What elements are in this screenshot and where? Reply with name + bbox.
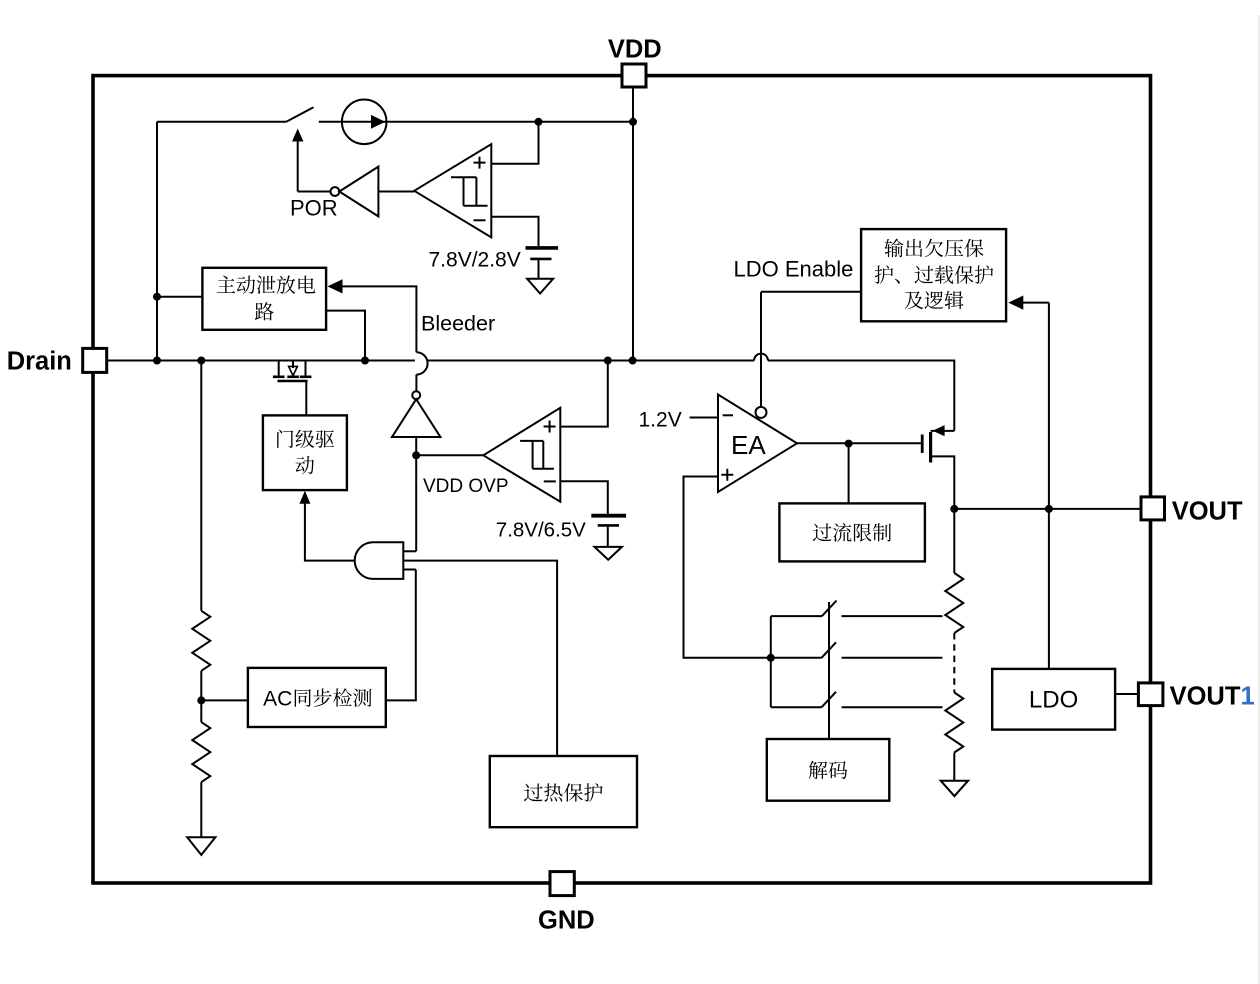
block thermal protection text 过热保护 <box>524 784 543 802</box>
wire 1.2V to EA - input <box>690 417 718 419</box>
wire trim bracket vertical <box>770 616 772 707</box>
block current limit text 过流限制 <box>813 523 832 541</box>
wire UV box left to enable line <box>761 291 861 293</box>
resistor R2 <box>192 722 210 782</box>
comparator U1 plus sign <box>474 157 486 169</box>
transistor Q1 gate bar <box>278 380 308 383</box>
capacitor C2 top plate <box>591 514 626 518</box>
transistor Q1 body contact tick <box>287 375 299 378</box>
wire EA output to Q2 gate <box>797 442 921 444</box>
wire divider dashed section <box>953 633 955 693</box>
buffer U4 bubble <box>412 391 420 399</box>
wire switch common to decoder <box>828 602 830 739</box>
pin VDD square <box>622 64 646 87</box>
wire Q2 source to VOUT node <box>931 456 955 509</box>
wire AND output to gate driver <box>305 503 355 561</box>
resistor R3 <box>945 573 963 633</box>
buffer U4 triangle <box>392 399 440 437</box>
block gate driver text line1 门级驱 <box>277 430 293 448</box>
wire C1 to ground <box>538 260 540 279</box>
op-amp EA plus sign <box>721 469 733 481</box>
block UV overload logic box <box>861 229 1006 321</box>
svg-text:Bleeder: Bleeder <box>421 312 495 336</box>
block decoder text 解码 <box>809 761 828 779</box>
block AC sync text 同步检测 <box>295 689 311 707</box>
wire EA + input from feedback <box>684 477 771 658</box>
resistor R1 <box>192 611 210 671</box>
junction dot AC sync tap <box>197 696 205 704</box>
block active bleeder text line1 主动泄放电 <box>217 276 235 293</box>
comparator U1 triangle <box>414 144 491 237</box>
ground symbol G3 <box>187 837 215 855</box>
current source I1 circle <box>342 100 387 145</box>
wire switch to current source to VDD line <box>319 121 633 123</box>
wire VOUT sense to UV box <box>1022 302 1049 304</box>
svg-text:EA: EA <box>731 430 766 460</box>
capacitor C1 top plate <box>526 246 559 250</box>
inverter U3 triangle POR <box>339 167 378 217</box>
comparator U2 hysteresis symbol <box>520 441 554 469</box>
wire trim row3 left <box>771 706 822 708</box>
wire trim row2 left <box>771 657 822 659</box>
block LDO box <box>992 669 1115 730</box>
wire POR control arrow vertical <box>297 139 299 192</box>
transistor Q2 channel bar <box>929 432 932 463</box>
wire VDD rail horizontal (switch left segment) <box>157 121 286 123</box>
wire U1 - input to reference cap <box>491 217 538 246</box>
wire Q1 gate to driver box <box>305 381 307 415</box>
block AC sync detect box <box>248 668 386 727</box>
svg-text:AC: AC <box>263 687 292 710</box>
block gate driver box <box>263 415 347 490</box>
ground symbol G2 <box>595 547 622 560</box>
svg-text:7.8V/6.5V: 7.8V/6.5V <box>496 519 586 542</box>
junction dot feedback node <box>767 654 775 662</box>
op-amp EA minus sign <box>723 414 733 416</box>
pin GND square <box>550 872 574 896</box>
transistor Q2 arrowhead <box>933 425 945 436</box>
wire buffer to OVP node <box>415 437 417 455</box>
svg-text:Drain: Drain <box>7 348 72 376</box>
wire R2 to ground <box>200 782 202 837</box>
wire EA output to current limit box <box>848 444 850 504</box>
junction dot EA output <box>845 440 853 448</box>
transistor Q1 drain contact tick <box>273 375 285 378</box>
chip boundary outline <box>93 76 1151 883</box>
wire hop over bus (bleeder) <box>416 352 427 374</box>
svg-text:LDO Enable: LDO Enable <box>734 257 854 282</box>
wire bus hop over enable line <box>754 354 768 361</box>
wire bleeder control from buffer <box>342 286 417 352</box>
block UV text line2 护、过载保护 <box>875 265 893 284</box>
wire VDD pin to bus vertical <box>632 87 634 361</box>
block active bleeder box <box>202 268 326 330</box>
wire trim row2 right <box>842 657 943 659</box>
wire bleeder box left to Drain rail <box>157 296 202 298</box>
svg-text:VDD OVP: VDD OVP <box>423 476 509 497</box>
op-amp EA triangle <box>718 395 797 493</box>
arrowhead into gate driver <box>299 491 310 504</box>
resistor R4 <box>945 693 963 753</box>
op-amp EA enable bubble <box>756 407 767 418</box>
capacitor C1 bottom plate <box>530 258 551 261</box>
transistor Q1 body arrowhead <box>289 366 298 375</box>
ground symbol G4 <box>941 781 968 796</box>
junction dot VOUT node <box>950 505 958 513</box>
wire Drain bus segment 2 <box>428 360 755 362</box>
block active bleeder text line2 路 <box>255 302 274 320</box>
svg-text:GND: GND <box>538 907 595 935</box>
comparator U1 minus sign <box>474 219 486 221</box>
block gate driver text line2 动 <box>296 456 315 474</box>
junction dot bus left rail <box>153 357 161 365</box>
switch S3 blade <box>822 642 837 658</box>
block thermal protection box <box>490 756 637 827</box>
wire AND bottom input to AC sync box <box>386 570 416 701</box>
comparator U1 hysteresis symbol <box>451 177 488 206</box>
capacitor C2 bottom plate <box>598 524 619 527</box>
wire U1 + input from VDD rail <box>491 122 538 164</box>
ground symbol G1 <box>527 279 553 294</box>
svg-text:VOUT: VOUT <box>1172 497 1243 525</box>
block UV text line1 输出欠压保 <box>884 239 903 258</box>
wire AND mid input to thermal box <box>403 561 557 756</box>
switch S2 blade <box>822 601 837 617</box>
wire OVP node to AND top input <box>415 455 417 551</box>
junction dot Drain rail bleeder tap <box>153 293 161 301</box>
junction dot bus OVP sense <box>604 357 612 365</box>
AND gate input stub top <box>403 550 416 552</box>
wire R1 to R2 <box>200 671 202 722</box>
junction dot OVP output node <box>412 451 420 459</box>
inverter U3 bubble <box>331 187 340 196</box>
comparator U2 plus sign <box>544 421 556 433</box>
block decoder box <box>767 739 890 801</box>
transistor Q1 body stub <box>292 362 294 369</box>
wire tap to AC sync box <box>201 699 248 701</box>
scan artifact right edge line <box>1258 15 1260 984</box>
AND gate G1 body <box>355 542 404 579</box>
junction dot comparator + tap <box>535 118 543 126</box>
current source I1 arrowhead <box>371 115 385 129</box>
block current limit box <box>779 503 925 561</box>
wire left vertical Drain rail <box>156 122 158 361</box>
wire OVP node to comparator U2 output <box>416 454 483 456</box>
wire hop to buffer bubble <box>415 375 417 392</box>
wire U2 - input to reference cap <box>560 481 608 514</box>
transistor Q2 gate bar <box>921 435 924 453</box>
pin Drain square <box>83 348 107 372</box>
transistor Q1 source contact tick <box>300 375 312 378</box>
block UV text line3 及逻辑 <box>905 291 924 309</box>
POR arrowhead up <box>292 129 303 142</box>
wire Drain bus segment 3 to pass transistor <box>768 361 954 431</box>
wire trim row1 right <box>842 615 943 617</box>
wire VOUT sense vertical to LDO <box>1048 303 1050 669</box>
AND gate input stub bottom <box>403 569 416 571</box>
svg-text:7.8V/2.8V: 7.8V/2.8V <box>429 249 521 272</box>
junction dot bus resistor chain <box>197 357 205 365</box>
wire bleeder box right to bus <box>326 311 365 361</box>
transistor Q1 drain stub <box>278 361 280 376</box>
wire LDO to VOUT1 pin <box>1115 693 1138 695</box>
comparator U2 minus sign <box>544 480 556 482</box>
arrowhead into bleeder box <box>328 279 343 293</box>
arrowhead into UV box <box>1008 296 1023 310</box>
pin VOUT square <box>1141 497 1165 520</box>
junction dot bus bleeder return <box>361 357 369 365</box>
wire POR bubble to arrow wire <box>298 191 331 193</box>
wire bus to resistor R1 <box>200 361 202 611</box>
junction dot bus VDD line <box>629 357 637 365</box>
comparator U2 triangle VDD OVP <box>483 408 560 502</box>
wire enable from UV box to EA bubble <box>760 292 762 407</box>
svg-text:VOUT1: VOUT1 <box>1170 682 1255 710</box>
junction dot LDO feed <box>1045 505 1053 513</box>
switch S1 blade <box>286 107 313 122</box>
wire R4 to ground <box>953 753 955 781</box>
wire VOUT node down to divider <box>953 509 955 573</box>
wire comparator U1 output to inverter <box>378 191 414 193</box>
switch S4 blade <box>822 692 837 708</box>
wire trim row1 left <box>771 615 822 617</box>
transistor Q1 source stub <box>305 361 307 376</box>
wire Drain bus segment 1 <box>107 360 415 362</box>
svg-text:VDD: VDD <box>608 35 662 63</box>
wire Q2 drain from bus <box>931 430 955 432</box>
pin VOUT1 square <box>1138 683 1163 706</box>
svg-text:1.2V: 1.2V <box>639 409 682 432</box>
wire trim row3 right <box>842 706 943 708</box>
wire VOUT node to pin <box>954 508 1141 510</box>
junction dot VDD line top <box>629 118 637 126</box>
wire U2 + input from bus <box>560 361 608 427</box>
svg-text:LDO: LDO <box>1029 687 1078 714</box>
wire C2 to ground <box>607 527 609 547</box>
svg-text:POR: POR <box>290 196 338 221</box>
